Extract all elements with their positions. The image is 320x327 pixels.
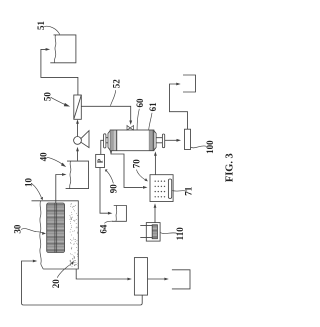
svg-text:50: 50 xyxy=(43,92,53,102)
label 64 xyxy=(98,221,113,233)
label 61 xyxy=(148,102,158,130)
arrow into pump xyxy=(76,147,79,152)
label 51 xyxy=(36,21,60,35)
svg-text:70: 70 xyxy=(132,159,142,169)
treatment unit 80 xyxy=(134,258,147,296)
wire element30 to tank40 xyxy=(56,175,62,204)
label 100 xyxy=(191,140,215,154)
outlet bracket top right xyxy=(183,75,196,92)
label 110 xyxy=(160,227,185,241)
wire tank 70 to module 60 xyxy=(154,155,156,175)
tank 70 xyxy=(150,175,173,202)
arrow into tank 64 xyxy=(108,212,113,215)
tank 40 xyxy=(66,161,89,189)
wire unit 80 to outlet bracket xyxy=(148,278,165,280)
arrow into tank 70 bottom xyxy=(154,203,157,207)
module left cone xyxy=(108,131,110,151)
svg-text:FIG. 3: FIG. 3 xyxy=(224,153,235,182)
arrow into tank 40 xyxy=(62,173,67,176)
module right hatch band xyxy=(148,130,150,151)
exchanger 100 xyxy=(185,129,191,149)
small down arrow on module drain stub xyxy=(110,151,112,154)
label 50 xyxy=(43,92,71,107)
svg-text:40: 40 xyxy=(39,152,49,162)
svg-text:90: 90 xyxy=(109,184,119,194)
svg-text:60: 60 xyxy=(135,98,145,108)
wire gauge 90 to tank 64 xyxy=(100,168,108,214)
pressure gauge box (P) xyxy=(96,154,105,167)
module right end cap xyxy=(162,134,164,148)
bottom outlet bracket xyxy=(172,270,190,289)
tank 64 xyxy=(112,206,126,222)
arrow into tank 51 xyxy=(46,48,51,51)
label 70 xyxy=(132,159,148,182)
wire filter50 to valve on module 60 xyxy=(81,106,130,121)
arrow into outlet bracket xyxy=(176,83,181,86)
element 30 (filter cartridge) xyxy=(47,203,65,253)
svg-text:P: P xyxy=(97,159,104,163)
svg-text:110: 110 xyxy=(175,227,185,241)
label 40 xyxy=(39,152,66,167)
label 90 xyxy=(105,169,119,193)
svg-text:20: 20 xyxy=(51,279,61,289)
wire 100 to top outlet xyxy=(170,84,188,129)
wire module to exchanger 100 xyxy=(165,139,177,141)
membrane module 60 body xyxy=(110,130,154,151)
label 60 xyxy=(135,98,145,130)
label 30 xyxy=(13,224,47,235)
arrow into 100 xyxy=(177,139,182,142)
svg-text:61: 61 xyxy=(148,102,158,112)
arrow into bottom outlet bracket xyxy=(164,278,169,281)
wire module left cap to gauge 90 xyxy=(101,140,104,154)
inlet valve on module 60 xyxy=(127,126,134,131)
label 52 xyxy=(110,79,121,106)
wire tank10 bottom to unit 80 xyxy=(76,269,127,279)
tank 51 xyxy=(50,35,76,63)
svg-text:100: 100 xyxy=(205,140,215,154)
pump P1 xyxy=(74,131,89,148)
arrow into tank 70 xyxy=(143,186,148,189)
arrow into filter 50 xyxy=(76,119,79,123)
wire heater 110 to tank 70 xyxy=(154,207,156,222)
arrow onto module inlet valve xyxy=(129,121,132,125)
wire unit 80 return to tank 10 xyxy=(22,261,143,305)
stipple 20 (media) xyxy=(70,204,78,267)
arrow into module bottom xyxy=(154,151,157,155)
arrow return into tank 10 xyxy=(33,260,38,263)
svg-text:52: 52 xyxy=(111,79,121,89)
wire module drain to tank 70 xyxy=(111,151,143,188)
module right neck xyxy=(156,138,162,143)
tank 10 xyxy=(32,201,79,269)
svg-text:30: 30 xyxy=(13,224,23,234)
wire tank40 to pump xyxy=(77,151,79,161)
label 71 xyxy=(172,186,193,196)
svg-text:51: 51 xyxy=(36,21,46,31)
module left end cap xyxy=(104,134,106,148)
arrow into unit 80 xyxy=(127,278,131,281)
label 10 xyxy=(23,178,43,201)
module left hatch band xyxy=(111,130,116,151)
module right cone xyxy=(154,131,156,151)
svg-text:10: 10 xyxy=(23,178,33,188)
tank 70 dots xyxy=(155,181,166,198)
element 71 in tank 70 xyxy=(168,179,171,199)
filter F (50) xyxy=(74,95,82,119)
svg-text:64: 64 xyxy=(98,224,108,234)
label 20 xyxy=(51,261,74,288)
wire pump to filter 50 xyxy=(77,123,79,136)
wire filter50 to tank51 xyxy=(41,49,78,95)
heater 110 xyxy=(140,223,160,242)
module left neck xyxy=(106,138,108,143)
